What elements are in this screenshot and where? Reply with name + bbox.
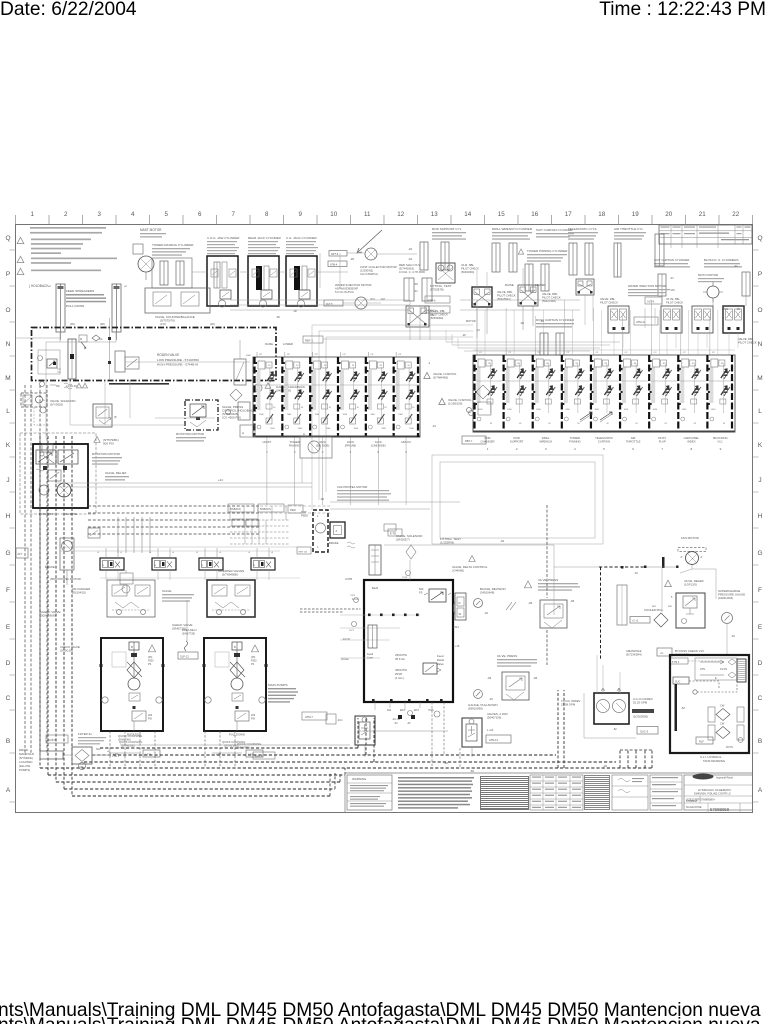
svg-text:C/2TB: C/2TB [345, 578, 352, 581]
svg-text:SLP-13: SLP-13 [180, 655, 189, 659]
svg-text:52.20 GPM: 52.20 GPM [633, 701, 648, 705]
svg-text:3: 3 [545, 447, 547, 451]
svg-text:HYDRAULIC SCHEMATIC: HYDRAULIC SCHEMATIC [698, 788, 731, 792]
svg-text:PSI: PSI [251, 718, 255, 721]
svg-text:5/N520/N: 5/N520/N [260, 508, 271, 511]
svg-text:A: A [6, 787, 11, 794]
svg-text:( HOLDBACK: ( HOLDBACK [29, 284, 49, 288]
svg-text:-04: -04 [476, 329, 480, 332]
svg-text:VA VE, DBL: VA VE, DBL [666, 297, 680, 301]
svg-text:L: L [758, 408, 762, 415]
svg-text:PSI: PSI [148, 718, 152, 721]
svg-text:Ingersoll-Rand: Ingersoll-Rand [716, 776, 733, 780]
svg-text:SUC: SUC [675, 681, 680, 684]
svg-text:21: 21 [699, 211, 706, 218]
svg-text:20: 20 [665, 211, 672, 218]
svg-text:(5/7234/2R4): (5/7234/2R4) [626, 653, 642, 657]
svg-text:11: 11 [364, 211, 371, 218]
svg-text:(5/N67728): (5/N67728) [182, 632, 195, 636]
svg-text:EP3: EP3 [414, 709, 419, 712]
svg-text:1 +04: 1 +04 [487, 729, 494, 732]
svg-text:TANK DRAWING: TANK DRAWING [703, 759, 726, 763]
svg-text:AIR THROTTLE CYL: AIR THROTTLE CYL [614, 227, 643, 231]
svg-text:PILOT CHECK: PILOT CHECK [497, 294, 516, 298]
svg-text:COOLER PKG.: COOLER PKG. [644, 608, 663, 612]
svg-text:6: 6 [632, 447, 634, 451]
svg-text:B: B [6, 738, 10, 745]
svg-text:7571: 7571 [349, 630, 355, 632]
svg-text:500: 500 [419, 587, 424, 591]
svg-text:W: W [459, 612, 462, 616]
svg-text:ATM-14: ATM-14 [636, 320, 646, 324]
svg-text:ROD SUPPORT CYL: ROD SUPPORT CYL [432, 227, 462, 231]
svg-text:P&M: P&M [290, 508, 296, 512]
svg-text:WATER INJECTION MOTOR: WATER INJECTION MOTOR [335, 283, 371, 287]
svg-text:BRAKE: BRAKE [45, 565, 55, 569]
svg-text:D: D [758, 660, 763, 667]
svg-text:(5/2920556): (5/2920556) [633, 715, 648, 719]
svg-text:REVERSE: REVERSE [64, 512, 78, 516]
svg-text:Q: Q [5, 235, 10, 242]
svg-text:-06: -06 [528, 601, 533, 605]
svg-text:(C/200/N2): (C/200/N2) [360, 269, 373, 273]
svg-text:10: 10 [412, 407, 415, 409]
svg-text:+0-: +0- [660, 652, 664, 655]
svg-text:+ 60 +: + 60 + [112, 755, 120, 758]
svg-text:VALVE, RELIEF: VALVE, RELIEF [105, 471, 127, 475]
svg-text:SUP: SUP [96, 749, 101, 751]
svg-text:7: 7 [232, 211, 236, 218]
svg-text:C2: C2 [595, 352, 599, 354]
svg-text:C2: C2 [712, 352, 716, 354]
svg-text:-0': -0' [700, 557, 703, 559]
svg-text:C2: C2 [654, 352, 658, 354]
svg-text:C2: C2 [479, 352, 483, 354]
svg-text:(1/159/155): (1/159/155) [448, 402, 462, 406]
svg-text:02: 02 [577, 423, 580, 425]
svg-text:CP: CP [343, 354, 347, 356]
svg-text:PS: PS [251, 663, 255, 666]
svg-text:(55/104/20): (55/104/20) [72, 591, 86, 595]
svg-text:7060: 7060 [287, 414, 292, 416]
svg-text:P: P [6, 271, 10, 278]
svg-text:7000: 7000 [381, 428, 386, 430]
svg-text:15: 15 [498, 211, 505, 218]
svg-text:+2: +2 [124, 285, 127, 288]
svg-text:5000: 5000 [246, 355, 252, 357]
svg-text:RB7-1: RB7-1 [305, 339, 313, 343]
svg-text:, 10: , 10 [267, 365, 271, 367]
svg-text:B: B [131, 645, 133, 649]
svg-text:7000: 7000 [326, 428, 331, 430]
svg-text:(3/50/129): (3/50/129) [60, 649, 73, 653]
svg-text:PULLDOWN: PULLDOWN [229, 733, 245, 737]
svg-text:PILOT CHECK: PILOT CHECK [600, 301, 618, 305]
svg-text:TOP: TOP [301, 510, 307, 514]
svg-text:EP2: EP2 [400, 709, 405, 712]
svg-text:16: 16 [531, 211, 538, 218]
svg-text:FAN MOTOR: FAN MOTOR [681, 536, 700, 540]
svg-text:F: F [6, 587, 10, 594]
svg-text:02: 02 [636, 423, 639, 425]
svg-text:-04: -04 [500, 539, 504, 543]
svg-text:C2: C2 [683, 352, 687, 354]
svg-text:1050: 1050 [653, 409, 658, 411]
svg-text:(5/7N0456B): (5/7N0456B) [222, 573, 238, 577]
svg-text:AMANPOLE: AMANPOLE [626, 649, 642, 653]
svg-text:E: E [758, 624, 763, 631]
svg-text:10: 10 [384, 407, 387, 409]
svg-text:(50407156): (50407156) [487, 716, 501, 720]
svg-text:FEED: FEED [301, 514, 308, 518]
svg-text:-06: -06 [570, 599, 575, 603]
svg-text:7000: 7000 [409, 428, 414, 430]
svg-text:(5/7N6/100): (5/7N6/100) [121, 744, 135, 748]
svg-text:3: 3 [98, 211, 102, 218]
svg-text:-04: -04 [731, 634, 735, 638]
svg-text:500 PSI: 500 PSI [103, 442, 114, 446]
svg-text:-06: -06 [276, 315, 280, 319]
svg-text:L: L [6, 408, 10, 415]
svg-text:LOWER: LOWER [535, 283, 546, 287]
svg-text:WARNING: WARNING [352, 777, 367, 781]
svg-text:-CM: -CM [380, 298, 385, 301]
svg-text:WATER INJECTION MOTOR: WATER INJECTION MOTOR [628, 284, 666, 288]
svg-text:-0: -0 [219, 552, 222, 554]
svg-text:CP: CP [315, 354, 319, 356]
svg-text:LOW PRESSURE - 5744X656: LOW PRESSURE - 5744X656 [157, 358, 199, 362]
svg-text:-0N: -0N [520, 322, 524, 325]
svg-text:(34910648): (34910648) [480, 591, 494, 595]
svg-text:THROTTLE: THROTTLE [626, 440, 641, 444]
svg-text:WRENCH: WRENCH [539, 440, 552, 444]
svg-text:D: D [6, 660, 11, 667]
svg-text:02: 02 [665, 423, 668, 425]
svg-text:-CM: -CM [670, 289, 675, 292]
svg-text:NPT-6: NPT-6 [331, 253, 339, 256]
svg-text:MAST MOTOR: MAST MOTOR [140, 228, 162, 232]
svg-text:8: 8 [690, 447, 692, 451]
svg-text:1050: 1050 [624, 409, 629, 411]
svg-text:BRAKE: BRAKE [329, 541, 339, 545]
svg-text:5 TM 3: 5 TM 3 [672, 662, 680, 664]
svg-text:-0: -0 [172, 552, 175, 554]
svg-text:CP: CP [287, 354, 291, 356]
svg-text:12: 12 [397, 211, 404, 218]
svg-text:+24: +24 [218, 478, 223, 482]
svg-text:CP: CP [398, 354, 402, 356]
svg-text:1050: 1050 [711, 409, 716, 411]
svg-text:(5/N202/7): (5/N202/7) [396, 538, 410, 542]
svg-text:-0: -0 [120, 552, 123, 554]
svg-text:X: X [359, 608, 361, 611]
svg-text:A: A [43, 399, 45, 402]
svg-text:C.G. JACK CYLINDER: C.G. JACK CYLINDER [286, 236, 318, 240]
svg-text:(56910096): (56910096) [468, 707, 483, 711]
svg-text:(30): (30) [70, 322, 75, 326]
svg-text:5: 5 [671, 596, 673, 599]
svg-text:-06: -06 [487, 676, 492, 680]
svg-text:02: 02 [548, 423, 551, 425]
svg-text:14: 14 [464, 211, 471, 218]
svg-text:7060: 7060 [259, 414, 264, 416]
svg-text:E: E [6, 624, 11, 631]
svg-text:(5/7N6/100): (5/7N6/100) [224, 744, 238, 748]
svg-text:02: 02 [723, 423, 726, 425]
svg-text:VLT-9: VLT-9 [647, 300, 654, 304]
svg-text:-40: -40 [603, 764, 607, 768]
svg-text:CURTAIN: CURTAIN [598, 440, 610, 444]
svg-text:-04: -04 [394, 722, 398, 725]
svg-text:K: K [6, 442, 11, 449]
svg-text:SUC-3: SUC-3 [640, 730, 649, 734]
svg-text:4: 4 [317, 546, 319, 549]
svg-text:17: 17 [565, 211, 572, 218]
svg-text:14.2% 2%: 14.2% 2% [66, 385, 78, 388]
svg-text:2: 2 [516, 447, 518, 451]
svg-text:9: 9 [299, 211, 303, 218]
svg-text:MAIN PUMPS: MAIN PUMPS [268, 683, 288, 687]
svg-text:A: A [242, 431, 244, 435]
svg-text:(5/7440262): (5/7440262) [399, 267, 414, 271]
svg-text:MOTOR: MOTOR [466, 319, 476, 323]
svg-text:RB7-7: RB7-7 [465, 439, 473, 443]
svg-text:10: 10 [301, 407, 304, 409]
svg-text:+15: +15 [455, 645, 460, 648]
svg-text:DREA DE.N: DREA DE.N [182, 628, 197, 632]
svg-text:8: 8 [265, 211, 269, 218]
svg-text:(5/7575/76): (5/7575/76) [160, 319, 175, 323]
svg-text:+2: +2 [48, 285, 51, 288]
svg-text:N: N [202, 565, 204, 567]
svg-text:PS: PS [419, 591, 423, 595]
svg-text:S/M- 8: S/M- 8 [255, 756, 263, 759]
svg-text:VALVE,: VALVE, [162, 589, 172, 593]
svg-text:VA M. DBL: VA M. DBL [461, 263, 474, 267]
svg-text:, 10: , 10 [295, 365, 299, 367]
svg-text:J: J [758, 477, 761, 484]
svg-text:1: 1 [487, 447, 489, 451]
svg-text:1050: 1050 [507, 409, 512, 411]
svg-text:7000: 7000 [354, 428, 359, 430]
svg-text:QUICK COUPLING: QUICK COUPLING [237, 742, 261, 746]
svg-text:TOWER PINNING CYLINDER: TOWER PINNING CYLINDER [527, 249, 568, 253]
svg-text:5769B958: 5769B958 [686, 800, 698, 803]
svg-text:T515: T515 [402, 577, 408, 579]
svg-text:35 ft twt: 35 ft twt [395, 657, 405, 661]
svg-text:02: 02 [606, 423, 609, 425]
svg-text:-04: -04 [432, 425, 436, 428]
svg-text:VCC: VCC [370, 298, 375, 301]
svg-text:(5/N67/60): (5/N67/60) [118, 738, 131, 742]
svg-text:(04 Aw: (04 Aw [341, 658, 349, 661]
svg-text:21.08 GPM: 21.08 GPM [561, 703, 576, 707]
svg-text:(34261/092): (34261/092) [718, 596, 733, 600]
svg-text:4: 4 [131, 211, 135, 218]
svg-text:ATM-12: ATM-12 [489, 738, 499, 742]
svg-text:C2: C2 [508, 352, 512, 354]
svg-text:QUICK COUPLING: QUICK COUPLING [118, 734, 142, 738]
svg-text:FLAP: FLAP [659, 440, 666, 444]
svg-text:7: 7 [661, 447, 663, 451]
svg-text:02: 02 [694, 423, 697, 425]
svg-text:PILOT CHECK: PILOT CHECK [666, 301, 684, 305]
svg-text:4: 4 [317, 515, 319, 518]
svg-text:10: 10 [273, 407, 276, 409]
svg-text:02: 02 [519, 423, 522, 425]
svg-text:M: M [757, 375, 762, 382]
svg-text:4: 4 [574, 447, 576, 451]
svg-text:RAISE: RAISE [505, 283, 514, 287]
svg-text:5/N520/N: 5/N520/N [230, 508, 241, 511]
svg-text:-04: -04 [634, 571, 638, 575]
svg-text:O: O [757, 307, 762, 314]
svg-text:C2: C2 [625, 352, 629, 354]
svg-text:(C44066): (C44066) [452, 569, 464, 573]
svg-text:-04: -04 [670, 277, 674, 280]
svg-text:10: 10 [357, 407, 360, 409]
svg-text:PILOT CHECK: PILOT CHECK [461, 267, 479, 271]
svg-text:N: N [155, 565, 157, 567]
svg-text:01 PS: 01 PS [720, 667, 727, 671]
svg-text:-04: -04 [430, 313, 434, 317]
svg-text:INDEX: INDEX [687, 440, 696, 444]
svg-text:-0N: -0N [414, 283, 418, 286]
svg-text:ROTATION MOTOR: ROTATION MOTOR [92, 452, 121, 456]
svg-text:VAN DANGER: VAN DANGER [72, 587, 90, 591]
svg-text:(5/7484456): (5/7484456) [433, 376, 448, 380]
svg-text:, 10: , 10 [378, 365, 382, 367]
svg-text:A: A [336, 529, 338, 533]
svg-text:40 PS: 40 PS [726, 746, 733, 749]
svg-text:DOUBLE PUMP: DOUBLE PUMP [633, 710, 652, 714]
svg-text:FORWARD: FORWARD [39, 512, 53, 516]
svg-text:-05: -05 [407, 722, 411, 725]
svg-text:MOTO MOTOR: MOTO MOTOR [698, 273, 718, 277]
svg-text:(5/: (5/ [114, 417, 117, 419]
svg-text:M: M [80, 338, 82, 341]
svg-text:-2: -2 [428, 362, 431, 365]
svg-text:(30): (30) [210, 322, 215, 326]
svg-text:1050: 1050 [478, 409, 483, 411]
svg-text:SUIT CURTAIN CYLINDER: SUIT CURTAIN CYLINDER [536, 228, 574, 232]
svg-text:7060: 7060 [370, 414, 375, 416]
svg-text:, 10: , 10 [406, 365, 410, 367]
svg-text:CH CU/M/PCA: CH CU/M/PCA [360, 272, 378, 276]
svg-text:R: R [459, 601, 461, 605]
svg-text:-0': -0' [680, 557, 683, 559]
svg-text:(3/N6/700): (3/N6/700) [237, 746, 250, 750]
svg-text:C: C [6, 695, 11, 702]
svg-text:CP: CP [370, 354, 374, 356]
svg-text:HM-CO: HM-CO [401, 440, 411, 444]
svg-text:ATM-7: ATM-7 [305, 715, 313, 719]
svg-text:5: 5 [165, 211, 169, 218]
svg-text:REAR JACK CYLINDER: REAR JACK CYLINDER [248, 236, 282, 240]
svg-text:2: 2 [64, 211, 68, 218]
svg-text:ROTATION MOTOR: ROTATION MOTOR [176, 432, 205, 436]
svg-text:BLOKA N. O. CYLINDERS: BLOKA N. O. CYLINDERS [704, 258, 738, 262]
svg-text:PUMPS): PUMPS) [19, 768, 30, 772]
svg-text:FEED SPREADERS: FEED SPREADERS [66, 289, 94, 293]
svg-text:-0: -0 [248, 552, 251, 554]
svg-text:-0: -0 [97, 552, 100, 554]
svg-text:ASPW/N339050XP: ASPW/N339050XP [335, 287, 358, 291]
svg-text:LOWER: LOWER [283, 342, 293, 346]
svg-text:9: 9 [720, 447, 722, 451]
svg-text:6: 6 [198, 211, 202, 218]
svg-text:19: 19 [632, 211, 639, 218]
svg-text:0.3 DA. C. 4.7% ROD: 0.3 DA. C. 4.7% ROD [399, 270, 425, 274]
svg-text:Q: Q [757, 235, 762, 242]
svg-text:ATN: ATN [700, 667, 705, 671]
svg-text:1: 1 [31, 211, 35, 218]
svg-text:5: 5 [603, 447, 605, 451]
svg-text:-04: -04 [408, 257, 412, 261]
svg-text:RS7: RS7 [668, 606, 673, 608]
svg-text:-60: -60 [470, 769, 474, 773]
svg-text:P/E: P/E [56, 386, 60, 388]
svg-text:-0: -0 [149, 552, 152, 554]
svg-text:-0: -0 [196, 552, 199, 554]
svg-text:Bauft: Bauft [372, 586, 378, 590]
svg-text:(1/152R/N): (1/152R/N) [440, 541, 454, 545]
svg-text:O: O [5, 307, 10, 314]
svg-text:RODEN VALVE: RODEN VALVE [157, 353, 179, 357]
svg-text:PULL DOWN: PULL DOWN [66, 304, 84, 308]
svg-text:K: K [758, 442, 763, 449]
svg-text:RLT-5: RLT-5 [326, 303, 333, 306]
svg-text:-04 1: -04 1 [337, 719, 343, 722]
svg-text:02: 02 [490, 423, 493, 425]
svg-text:PINNING: PINNING [569, 440, 581, 444]
svg-text:ATM-4: ATM-4 [330, 264, 338, 267]
svg-text:RLF: RLF [699, 740, 704, 744]
svg-text:-06: -06 [320, 497, 324, 501]
svg-text:P: P [758, 271, 762, 278]
svg-text:PILOT CHECK: PILOT CHECK [542, 296, 561, 300]
svg-text:-52: -52 [613, 727, 617, 731]
svg-text:(1/5F12/5): (1/5F12/5) [684, 583, 697, 587]
svg-text:(90): (90) [100, 322, 105, 326]
svg-text:-52: -52 [681, 706, 685, 710]
svg-text:RUT: RUT [652, 606, 657, 608]
svg-text:HIGH PRESSURE - 5744B-M: HIGH PRESSURE - 5744B-M [157, 363, 198, 367]
svg-text:22: 22 [732, 211, 739, 218]
svg-text:N: N [6, 341, 11, 348]
svg-text:-0: -0 [271, 552, 274, 554]
svg-text:(5752878): (5752878) [430, 288, 444, 292]
svg-text:DRILL WRENCH CYLINDER: DRILL WRENCH CYLINDER [492, 227, 533, 231]
svg-text:-04 CR: -04 CR [342, 638, 350, 641]
svg-text:7373: 7373 [350, 595, 356, 597]
svg-text:-04: -04 [408, 247, 412, 251]
svg-text:CA: CA [99, 338, 103, 341]
svg-text:5.0 CU.IN./PCA: 5.0 CU.IN./PCA [335, 290, 354, 294]
svg-text:G: G [5, 550, 10, 557]
svg-text:Liner: Liner [367, 656, 373, 660]
svg-text:C: C [758, 695, 763, 702]
svg-text:-06: -06 [462, 334, 466, 337]
svg-text:7060: 7060 [398, 414, 403, 416]
svg-text:1050: 1050 [594, 409, 599, 411]
svg-text:7000: 7000 [298, 428, 303, 430]
svg-text:(50402004): (50402004) [461, 270, 474, 274]
svg-text:-06: -06 [533, 676, 538, 680]
svg-text:WTM-6: WTM-6 [427, 299, 436, 303]
svg-text:C.O.G. JAW CYLINDER: C.O.G. JAW CYLINDER [207, 236, 240, 240]
svg-text:-04: -04 [414, 290, 418, 293]
